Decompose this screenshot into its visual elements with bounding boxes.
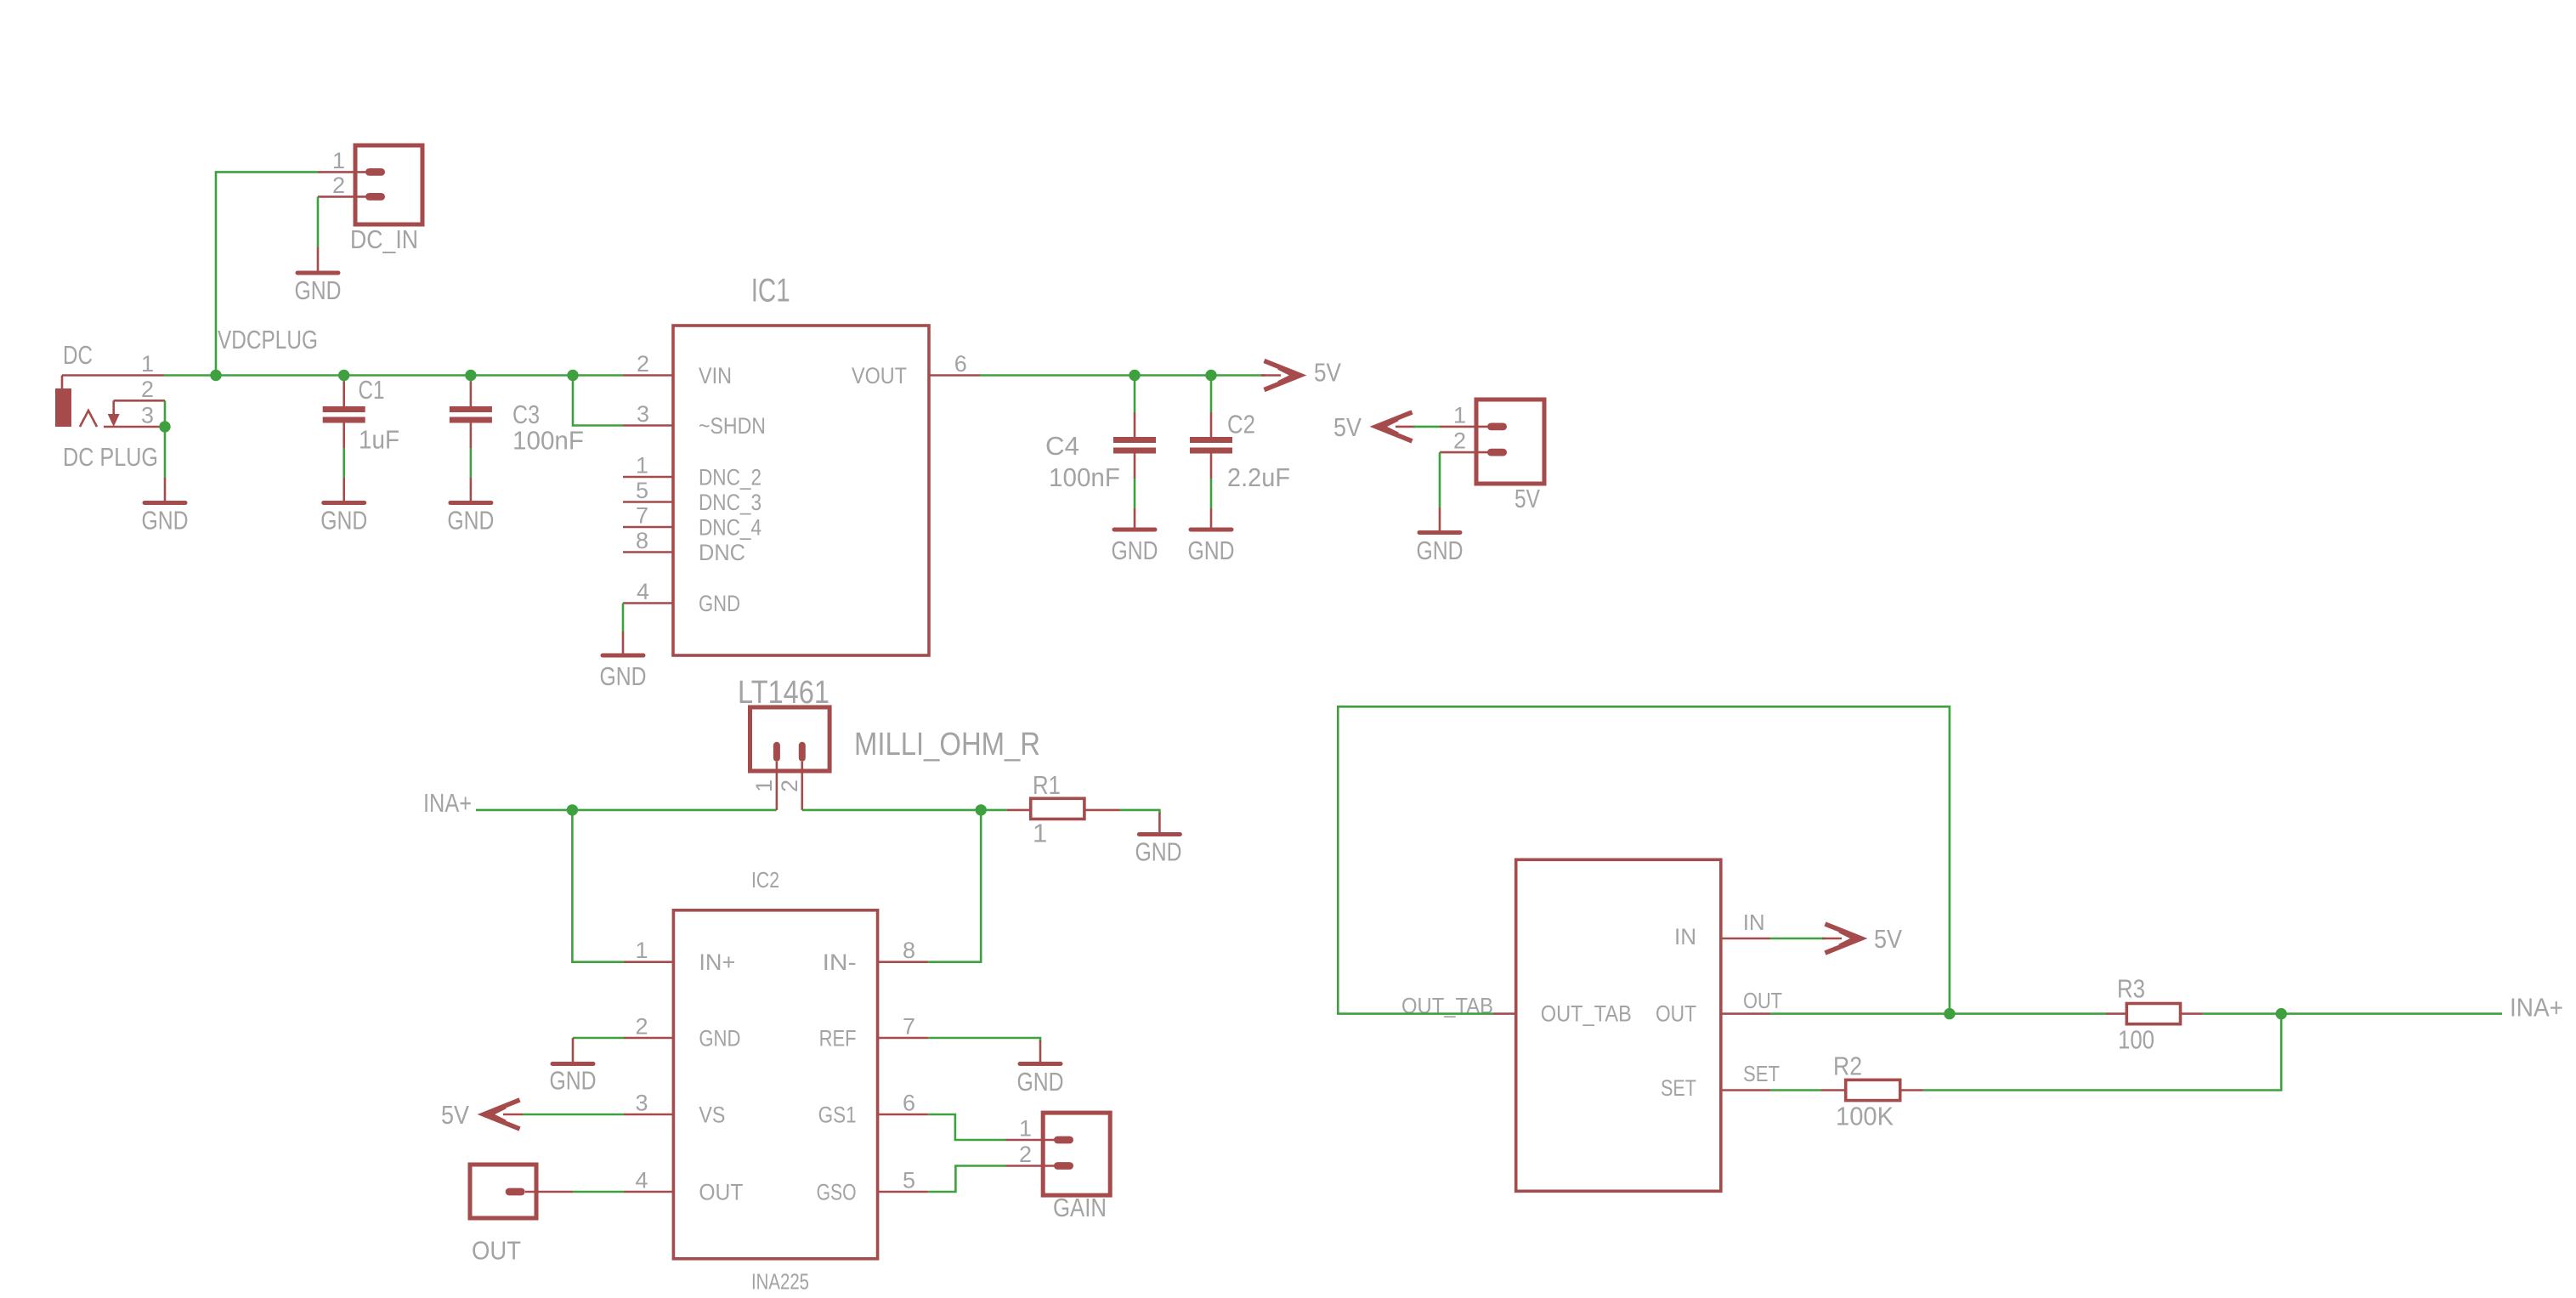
svg-text:2: 2 — [332, 173, 345, 198]
pin 1 line of DC PLUG — [62, 374, 164, 377]
connector X1 DC PLUG (barrel jack symbol) — [55, 376, 120, 428]
supply symbol 5V (left-pointing arrow at 5V connector) — [1376, 413, 1415, 440]
svg-text:GND: GND — [550, 1066, 597, 1096]
svg-text:7: 7 — [636, 503, 648, 529]
svg-text:GND: GND — [1188, 536, 1235, 565]
wire R1 to GND — [1120, 810, 1160, 814]
wire 5V arrow to connector pin 1 — [1413, 426, 1440, 428]
svg-text:100K: 100K — [1836, 1102, 1894, 1131]
wire net VDCPLUG: main rail from DC PLUG pin1 to IC1 VIN — [164, 374, 623, 377]
svg-text:100nF: 100nF — [512, 426, 584, 456]
svg-text:IN: IN — [1743, 910, 1765, 935]
svg-text:IN+: IN+ — [699, 949, 735, 975]
junction at DC PLUG pin 3 — [159, 421, 170, 432]
svg-text:1: 1 — [1019, 1116, 1032, 1142]
svg-text:4: 4 — [635, 1168, 648, 1193]
regulator block OUT_TAB (LT3080 style) — [1516, 859, 1721, 1191]
junction at VDCPLUG vertical — [210, 370, 221, 381]
svg-text:IC1: IC1 — [751, 273, 790, 309]
wire IN- up to INA+ junction — [928, 810, 981, 962]
svg-text:INA225: INA225 — [751, 1269, 809, 1295]
svg-text:2: 2 — [635, 1014, 648, 1040]
resistor R1 — [1007, 798, 1120, 819]
ground GND under C4 — [1112, 508, 1158, 565]
resistor R3 — [2106, 1004, 2202, 1024]
ground GND under IC1 — [600, 632, 647, 691]
svg-text:5V: 5V — [1333, 412, 1362, 442]
pin OUT stub — [1721, 1012, 1770, 1015]
pin 5 DNC_3 stub — [623, 501, 673, 503]
pin IN stub — [1721, 938, 1770, 940]
connector 5V — [1440, 400, 1544, 484]
svg-text:C2: C2 — [1227, 410, 1255, 439]
junction at C3 top — [465, 370, 476, 381]
pin OUT_TAB stub (left) — [1493, 1012, 1516, 1015]
svg-text:IN-: IN- — [823, 949, 857, 975]
svg-text:6: 6 — [954, 351, 967, 377]
svg-text:4: 4 — [637, 579, 649, 604]
svg-text:R1: R1 — [1033, 770, 1061, 800]
svg-text:6: 6 — [903, 1091, 915, 1116]
pin 3 ~SHDN stub — [623, 424, 673, 427]
svg-text:C4: C4 — [1045, 431, 1079, 461]
wire R3 to INA+ label — [2202, 1012, 2502, 1015]
ground GND under C3 — [447, 478, 494, 536]
wire R2 to SET pin — [1770, 1089, 1821, 1091]
capacitor C4 — [1113, 376, 1156, 479]
svg-text:OUT: OUT — [1656, 1001, 1696, 1027]
svg-text:DNC_3: DNC_3 — [699, 490, 761, 515]
pin 5 GSO stub — [878, 1191, 929, 1193]
svg-text:5: 5 — [636, 478, 648, 503]
svg-text:OUT: OUT — [1743, 988, 1782, 1013]
ground GND under C2 — [1188, 508, 1235, 565]
svg-text:1: 1 — [1033, 819, 1047, 848]
wire DC_IN pin2 to GND — [317, 196, 320, 247]
svg-text:1: 1 — [635, 938, 648, 963]
svg-text:DC: DC — [63, 340, 93, 370]
svg-text:100nF: 100nF — [1049, 462, 1120, 492]
svg-text:1: 1 — [1453, 402, 1466, 428]
svg-text:3: 3 — [635, 1091, 648, 1116]
ground GND under DC_IN — [295, 247, 342, 305]
svg-text:2: 2 — [1453, 428, 1466, 454]
svg-text:SET: SET — [1743, 1061, 1780, 1086]
wire net from MILLI_OHM_R pin 2 to R1 — [802, 809, 1007, 812]
wire branch from junction down to R2 — [1923, 1014, 2281, 1091]
svg-text:IC2: IC2 — [751, 867, 779, 893]
junction at C4 top — [1129, 370, 1140, 381]
svg-text:R3: R3 — [2117, 974, 2145, 1004]
pin 7 REF stub — [878, 1037, 929, 1040]
supply symbol 5V (left-pointing arrow at VS) — [484, 1101, 523, 1128]
svg-text:5V: 5V — [1874, 924, 1902, 954]
wire from junction down to GND — [164, 427, 167, 478]
svg-text:INA+: INA+ — [2510, 993, 2563, 1023]
svg-text:5V: 5V — [1314, 358, 1341, 388]
wire REF to GND — [928, 1038, 1040, 1042]
pin 3 VS stub — [624, 1114, 673, 1116]
svg-text:GAIN: GAIN — [1053, 1193, 1107, 1222]
svg-text:MILLI_OHM_R: MILLI_OHM_R — [854, 727, 1040, 762]
wire IN to 5V arrow — [1770, 938, 1826, 940]
junction at C1 top — [338, 370, 349, 381]
wire net INA+ from label to MILLI_OHM_R pin 1 — [476, 809, 777, 812]
svg-text:GND: GND — [1135, 837, 1182, 867]
svg-text:5V: 5V — [441, 1100, 469, 1130]
svg-text:GS1: GS1 — [818, 1102, 857, 1127]
pin 4 GND stub — [623, 602, 673, 604]
svg-text:DNC_4: DNC_4 — [699, 514, 761, 540]
junction at SHDN branch — [567, 370, 578, 381]
pin 2 VIN stub — [623, 374, 673, 377]
wire branch to IC1 ~SHDN — [573, 376, 623, 426]
svg-text:R2: R2 — [1833, 1051, 1862, 1081]
svg-text:~SHDN: ~SHDN — [699, 413, 766, 439]
wire net 5V from VOUT to arrow — [981, 374, 1266, 377]
svg-text:DC_IN: DC_IN — [350, 224, 418, 254]
svg-text:GND: GND — [295, 275, 342, 305]
svg-text:3: 3 — [637, 401, 649, 427]
svg-text:8: 8 — [636, 528, 648, 553]
pin 8 DNC stub — [623, 551, 673, 553]
svg-text:INA+: INA+ — [423, 788, 472, 818]
svg-text:OUT: OUT — [699, 1179, 743, 1204]
wire C4 to GND — [1134, 479, 1136, 508]
pin 6 GS1 stub — [878, 1114, 929, 1116]
wire net OUT from pin to R3 — [1770, 1012, 2106, 1015]
junction where loop meets OUT net — [1944, 1008, 1955, 1019]
svg-text:2: 2 — [777, 779, 802, 792]
supply symbol 5V (right-pointing arrow at VOUT rail) — [1261, 362, 1300, 389]
svg-text:C1: C1 — [359, 375, 385, 405]
ground GND under DC PLUG — [142, 478, 189, 536]
junction at IN+ branch — [567, 804, 578, 815]
resistor R2 — [1821, 1080, 1923, 1100]
svg-text:GSO: GSO — [817, 1179, 857, 1204]
svg-text:8: 8 — [903, 938, 915, 963]
svg-text:1: 1 — [332, 148, 345, 173]
svg-text:VDCPLUG: VDCPLUG — [218, 325, 318, 354]
pin 4 OUT stub — [624, 1191, 673, 1193]
svg-text:GND: GND — [447, 506, 494, 536]
svg-text:1uF: 1uF — [359, 425, 399, 455]
svg-text:GND: GND — [320, 506, 367, 536]
wire 5V connector pin2 to GND — [1439, 452, 1441, 507]
pin 1 DNC_2 stub — [623, 476, 673, 479]
svg-text:1: 1 — [636, 453, 648, 479]
svg-text:VIN: VIN — [699, 363, 732, 388]
svg-text:GND: GND — [699, 591, 740, 616]
wire OUT pad to IC2 pin 4 — [573, 1191, 624, 1193]
capacitor C1 — [323, 376, 365, 449]
wire VS to 5V arrow — [523, 1114, 624, 1116]
svg-text:2: 2 — [637, 351, 649, 377]
wire net VDCPLUG: vertical up to DC_IN pin 1 — [216, 172, 318, 375]
svg-text:SET: SET — [1661, 1075, 1696, 1101]
pin SET stub — [1721, 1089, 1770, 1091]
pin 3 line of DC PLUG — [104, 426, 165, 428]
wire net VDCPLUG: DC PLUG pin2 to pin3 junction — [164, 400, 167, 427]
capacitor C3 — [450, 376, 492, 449]
svg-text:DNC_2: DNC_2 — [699, 464, 761, 490]
svg-text:5V: 5V — [1514, 484, 1540, 513]
pin 2 GND stub — [624, 1037, 673, 1040]
svg-text:1: 1 — [141, 351, 154, 377]
svg-text:GND: GND — [699, 1025, 740, 1051]
svg-text:GND: GND — [142, 506, 189, 536]
wire C2 to GND — [1210, 479, 1213, 508]
svg-text:DC PLUG: DC PLUG — [63, 442, 158, 472]
ground GND under C1 — [320, 478, 367, 536]
ground GND at IC2 pin2 — [550, 1038, 597, 1096]
capacitor C2 — [1190, 376, 1232, 479]
IC IC2 (INA225) — [673, 910, 877, 1259]
ground GND under 5V connector — [1417, 507, 1464, 565]
junction at R2 branch — [2276, 1008, 2287, 1019]
svg-text:100: 100 — [2118, 1025, 2154, 1055]
wire C3 to GND — [470, 448, 473, 478]
svg-text:VS: VS — [699, 1102, 725, 1127]
ground GND at REF — [1017, 1040, 1064, 1097]
svg-text:VOUT: VOUT — [852, 363, 907, 388]
wire IC1 GND pin to ground — [622, 604, 625, 632]
wire GSO to GAIN pin 2 — [928, 1166, 1005, 1193]
connector DC_IN — [318, 145, 422, 224]
svg-text:DNC: DNC — [699, 540, 745, 565]
pin 2 line of DC PLUG — [114, 400, 165, 402]
ground GND right of R1 — [1135, 813, 1182, 867]
junction at C2 top — [1205, 370, 1216, 381]
svg-text:OUT_TAB: OUT_TAB — [1541, 1001, 1632, 1027]
wire junction to IC2 IN+ — [572, 810, 624, 962]
supply symbol 5V (right-pointing arrow at IN) — [1822, 925, 1861, 952]
svg-text:5: 5 — [903, 1168, 915, 1193]
svg-text:2: 2 — [141, 377, 154, 402]
IC IC1 (LT1461 regulator) — [673, 326, 929, 655]
wire GS1 to GAIN pin 1 — [928, 1114, 1005, 1140]
svg-text:GND: GND — [1417, 536, 1464, 565]
pin 6 VOUT stub — [929, 374, 981, 377]
wire feedback loop from OUT_TAB pin around to OUT net — [1338, 706, 1950, 1013]
svg-text:IN: IN — [1674, 924, 1696, 949]
svg-text:OUT: OUT — [472, 1236, 521, 1266]
pin 1 IN+ stub — [624, 961, 673, 963]
shunt resistor MILLI_OHM_R — [750, 707, 830, 810]
svg-text:GND: GND — [1112, 536, 1158, 565]
svg-text:REF: REF — [819, 1025, 857, 1051]
svg-text:GND: GND — [1017, 1067, 1064, 1097]
junction at R1 branch — [976, 804, 987, 815]
svg-text:1: 1 — [751, 779, 777, 792]
wire C1 to GND — [343, 448, 345, 478]
connector GAIN — [1006, 1113, 1111, 1195]
pad OUT — [470, 1165, 573, 1218]
svg-text:3: 3 — [141, 403, 154, 428]
pin 8 IN- stub — [878, 961, 929, 963]
svg-text:7: 7 — [903, 1014, 915, 1040]
pin 7 DNC_4 stub — [623, 526, 673, 529]
svg-text:GND: GND — [600, 661, 647, 691]
svg-text:2: 2 — [1019, 1142, 1032, 1167]
wire IC2 GND pin to ground — [573, 1037, 624, 1040]
svg-text:2.2uF: 2.2uF — [1227, 462, 1290, 492]
